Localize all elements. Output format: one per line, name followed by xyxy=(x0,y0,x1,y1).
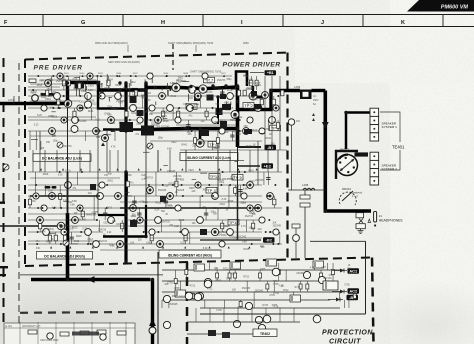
wire leg U xyxy=(135,90,137,96)
wire leg xyxy=(300,281,302,292)
wire tie xyxy=(157,150,159,172)
svg-text:10K: 10K xyxy=(149,114,154,116)
wire stub xyxy=(136,222,140,224)
junction dot xyxy=(169,195,171,197)
relay contact arc xyxy=(339,192,356,205)
transistor Q611 xyxy=(231,111,239,119)
junction xyxy=(124,235,127,238)
svg-text:R628: R628 xyxy=(163,121,169,123)
wire xyxy=(103,128,146,131)
svg-text:R615: R615 xyxy=(156,203,162,205)
wire xyxy=(73,322,75,344)
resistor L2 xyxy=(39,223,42,229)
wire xyxy=(55,322,57,344)
junction dot xyxy=(37,231,39,233)
transistor Q642 xyxy=(61,229,67,235)
junction dot xyxy=(182,195,184,197)
transistor Q661 xyxy=(93,128,100,135)
wire L-ch input bus xyxy=(0,102,64,106)
svg-text:9580: 9580 xyxy=(163,73,169,75)
power unit top rail xyxy=(4,327,135,329)
transistor Q650 xyxy=(212,117,219,124)
junction dot xyxy=(148,184,150,186)
wire leg xyxy=(343,300,345,308)
junction xyxy=(124,260,127,263)
wire xyxy=(180,88,199,89)
capacitor U35 xyxy=(220,92,224,94)
wire leg xyxy=(161,300,163,308)
driver block heavy xyxy=(141,126,154,136)
junction dot xyxy=(37,207,39,209)
junction dot xyxy=(60,207,62,209)
svg-text:2SA733: 2SA733 xyxy=(217,79,226,82)
test marker xyxy=(118,75,120,77)
svg-text:POWER DRIVER: POWER DRIVER xyxy=(223,62,281,69)
wire stub xyxy=(226,102,228,111)
svg-text:D705: D705 xyxy=(260,269,266,271)
transistor Q656 xyxy=(202,73,208,79)
svg-text:AC2: AC2 xyxy=(349,288,358,293)
svg-text:C705: C705 xyxy=(216,310,222,312)
svg-text:R615: R615 xyxy=(37,85,43,87)
svg-text:C705: C705 xyxy=(344,285,350,287)
wire leg L xyxy=(263,172,265,185)
svg-text:33K: 33K xyxy=(244,126,249,128)
svg-text:2SC945: 2SC945 xyxy=(255,290,264,292)
transistor Q777 xyxy=(163,295,170,302)
svg-text:10K: 10K xyxy=(188,134,193,136)
wire leg U xyxy=(199,96,201,108)
continuation tick xyxy=(45,186,51,189)
svg-text:10K: 10K xyxy=(272,222,277,224)
inner sheet dashed line xyxy=(18,63,20,330)
wire xyxy=(340,299,343,301)
transistor Q658 xyxy=(32,95,39,102)
svg-text:R641: R641 xyxy=(266,138,272,140)
svg-text:IDLING CURRENT ADJ (R/ch): IDLING CURRENT ADJ (R/ch) xyxy=(168,253,212,257)
wire stub xyxy=(234,116,242,118)
wire leg L xyxy=(246,220,248,232)
svg-text:+B2: +B2 xyxy=(264,163,272,168)
resistor xyxy=(299,284,302,289)
wire leg L xyxy=(252,220,254,232)
wire tie xyxy=(257,141,259,185)
svg-text:TE402: TE402 xyxy=(260,332,270,336)
power transistor block xyxy=(220,94,226,99)
wire xyxy=(279,76,281,150)
IDLING CURRENT ADJ (R/ch) label xyxy=(159,250,221,258)
wire leg U xyxy=(68,76,70,90)
wire to -B1 badge xyxy=(238,146,261,148)
resistor L29 xyxy=(184,235,187,241)
resistor U38 xyxy=(237,90,240,96)
wire leg U xyxy=(206,108,208,120)
wire relay coil feed xyxy=(345,113,348,150)
dark component row xyxy=(72,332,99,336)
tick xyxy=(127,45,129,52)
svg-text:R733: R733 xyxy=(262,305,268,307)
power unit border xyxy=(4,323,135,344)
svg-text:0.22: 0.22 xyxy=(107,232,112,234)
wire xyxy=(98,90,126,109)
wire xyxy=(217,97,219,124)
junction dot xyxy=(166,75,168,77)
svg-text:0.22: 0.22 xyxy=(180,242,185,244)
svg-text:+B1: +B1 xyxy=(267,71,274,75)
wire tie xyxy=(67,108,69,213)
amplifier block dashed border top xyxy=(25,53,290,60)
supply badge -B2 xyxy=(263,237,275,242)
wire leg L xyxy=(99,220,101,232)
svg-text:4.7K: 4.7K xyxy=(248,79,253,81)
wire rail L xyxy=(28,195,262,197)
junction dot xyxy=(71,219,73,221)
svg-text:D705: D705 xyxy=(272,305,278,307)
ground symbol xyxy=(358,229,364,234)
wire leg L xyxy=(234,185,236,196)
junction xyxy=(198,127,201,130)
wire rail U xyxy=(150,140,262,142)
wire stub xyxy=(108,98,110,102)
grid header divider xyxy=(442,15,444,27)
wire rail partial xyxy=(28,86,60,88)
svg-text:R628: R628 xyxy=(115,85,121,87)
svg-text:9650: 9650 xyxy=(243,41,249,45)
svg-text:8.2K: 8.2K xyxy=(88,90,93,92)
wire rail U xyxy=(28,75,232,77)
wire leg xyxy=(292,292,294,300)
wire leg xyxy=(253,292,255,308)
junction xyxy=(124,170,127,173)
svg-text:150p: 150p xyxy=(107,173,113,175)
amplifier block dashed border bottom xyxy=(25,258,372,267)
svg-text:0.22: 0.22 xyxy=(95,119,100,121)
svg-text:J: J xyxy=(321,20,324,26)
test point TP3 xyxy=(206,188,217,194)
junction dot xyxy=(169,89,171,91)
resistor L38 xyxy=(234,188,237,194)
svg-text:D601: D601 xyxy=(256,85,262,87)
wire rail partial xyxy=(30,100,80,102)
resistor xyxy=(234,273,237,278)
junction xyxy=(184,127,187,130)
svg-text:8.2K: 8.2K xyxy=(207,82,212,84)
relay pin xyxy=(340,168,342,170)
continuation tick xyxy=(49,93,55,96)
wire stub xyxy=(187,94,189,102)
junction dot xyxy=(191,107,193,109)
resistor U45 xyxy=(276,123,279,129)
svg-text:2SA733: 2SA733 xyxy=(63,145,72,148)
wire xyxy=(332,291,340,293)
wire rail L xyxy=(28,207,282,209)
speaker terminal SP2-4 xyxy=(370,177,379,185)
svg-text:D705: D705 xyxy=(174,288,180,290)
junction dot xyxy=(82,107,84,109)
driver block xyxy=(90,184,96,190)
svg-text:2SA733: 2SA733 xyxy=(56,80,65,83)
pre/power driver dashed divider xyxy=(172,44,174,70)
transistor Q605 xyxy=(199,85,207,93)
main sheet border left xyxy=(157,252,159,344)
junction dot xyxy=(243,184,245,186)
capacitor L33 xyxy=(204,213,208,215)
wire leg U xyxy=(147,108,149,120)
terminal mark xyxy=(373,136,375,138)
wire xyxy=(207,87,238,89)
wire leg xyxy=(314,263,316,270)
transistor Q686 xyxy=(85,93,92,100)
svg-text:0.22: 0.22 xyxy=(34,124,39,126)
wire tie xyxy=(237,147,239,185)
svg-text:1K: 1K xyxy=(165,214,168,216)
wire stub xyxy=(231,89,238,91)
junction dot xyxy=(79,95,81,97)
junction dot xyxy=(191,130,193,132)
resistor xyxy=(185,270,188,275)
grid header top rule xyxy=(0,14,474,16)
junction dot xyxy=(80,231,82,233)
signal flow arrow left xyxy=(87,276,95,283)
transistor Q615 xyxy=(102,135,109,142)
wire leg U xyxy=(107,76,109,90)
svg-text:TP 3: TP 3 xyxy=(207,188,216,193)
amplifier block dashed border right xyxy=(286,53,288,263)
wire rail vertical xyxy=(124,83,127,131)
wire rail partial xyxy=(28,240,100,242)
transistor Q686 xyxy=(195,93,201,99)
power unit dashed border top xyxy=(20,311,126,314)
junction dot xyxy=(86,107,88,109)
wire xyxy=(252,86,254,92)
diode xyxy=(336,298,340,302)
svg-text:(speakers): (speakers) xyxy=(350,191,362,195)
wire stub xyxy=(101,83,103,88)
wire leg L xyxy=(180,220,182,232)
transistor Q455 xyxy=(293,235,300,242)
wire stub xyxy=(31,139,38,141)
svg-text:9650 GND ADJ 9650(GRAY): 9650 GND ADJ 9650(GRAY) xyxy=(95,41,128,45)
resistor L41 xyxy=(252,223,255,229)
transistor Q802 xyxy=(100,334,106,340)
wire leg U xyxy=(91,108,93,120)
svg-text:R628: R628 xyxy=(213,148,219,150)
wire stub xyxy=(192,178,196,180)
wire leg U xyxy=(101,90,103,96)
wire leg U xyxy=(238,90,240,96)
test marker xyxy=(199,168,201,170)
transistor Q621 xyxy=(259,128,265,134)
junction dot xyxy=(269,231,271,233)
test marker xyxy=(81,75,83,77)
svg-text:9684: 9684 xyxy=(116,73,122,75)
svg-text:D601: D601 xyxy=(45,99,51,101)
transistor Q668 xyxy=(273,105,279,111)
wire tie xyxy=(44,150,46,172)
svg-text:150p: 150p xyxy=(221,235,227,237)
svg-text:L601: L601 xyxy=(8,98,14,102)
junction xyxy=(144,81,147,84)
svg-text:R615: R615 xyxy=(179,220,185,222)
driver block xyxy=(207,95,214,101)
wire tie xyxy=(32,150,34,172)
svg-text:4.7K: 4.7K xyxy=(241,226,246,228)
DC BALANCE ADJ (L/ch) label xyxy=(33,154,91,162)
wire leg xyxy=(175,270,177,292)
svg-text:R641: R641 xyxy=(48,229,54,231)
svg-text:33K: 33K xyxy=(233,237,238,239)
wire stub xyxy=(163,117,167,119)
wire stub xyxy=(108,96,111,98)
svg-text:150p: 150p xyxy=(249,228,255,230)
wire stub xyxy=(119,90,121,96)
svg-text:100/16V: 100/16V xyxy=(323,277,332,280)
svg-text:1K: 1K xyxy=(269,134,272,136)
test marker xyxy=(150,75,152,77)
wire leg L xyxy=(45,185,47,196)
svg-text:C624: C624 xyxy=(41,97,47,99)
wire rail U xyxy=(126,107,230,109)
wire stub xyxy=(166,83,168,88)
wire tie xyxy=(79,150,81,172)
svg-text:33K: 33K xyxy=(46,142,51,144)
wire xyxy=(199,129,202,140)
wire stub xyxy=(194,90,196,99)
wire leg U xyxy=(162,108,164,120)
wire R-ch return bus xyxy=(31,278,151,282)
wire rail L xyxy=(28,243,282,245)
wire stub xyxy=(49,232,55,234)
transistor Q648 xyxy=(41,105,47,111)
svg-text:6.8K: 6.8K xyxy=(242,241,247,243)
wire stub xyxy=(167,90,169,95)
wire leg xyxy=(240,300,242,308)
wire leg xyxy=(192,292,194,300)
svg-text:4.7K: 4.7K xyxy=(111,147,116,149)
wire stub xyxy=(143,151,150,153)
wire tie xyxy=(97,108,99,215)
svg-text:33K: 33K xyxy=(36,248,41,250)
junction dot xyxy=(143,231,145,233)
resistor U42 xyxy=(260,99,263,105)
resistor L22 xyxy=(150,235,153,241)
svg-text:IDLING CURRENT ADJ (L/ch): IDLING CURRENT ADJ (L/ch) xyxy=(187,156,231,160)
svg-text:R641: R641 xyxy=(171,96,177,98)
svg-text:2SC945: 2SC945 xyxy=(158,190,167,192)
svg-text:150p: 150p xyxy=(210,212,216,214)
wire tie xyxy=(169,150,171,172)
svg-text:10K: 10K xyxy=(237,134,242,136)
wire rail U xyxy=(146,130,260,132)
wire leg L xyxy=(151,232,153,244)
wire stub xyxy=(145,193,151,195)
wire leg U xyxy=(267,120,269,131)
transistor Q779 xyxy=(263,315,271,323)
svg-text:1K: 1K xyxy=(348,265,351,267)
svg-text:150p: 150p xyxy=(223,226,229,228)
junction dot xyxy=(52,75,54,77)
wire xyxy=(13,96,15,105)
junction dot xyxy=(229,184,231,186)
transistor Q638 xyxy=(130,105,137,112)
resistor U32 xyxy=(205,111,208,117)
svg-text:C612: C612 xyxy=(219,204,225,206)
wire tie xyxy=(185,150,187,172)
test marker xyxy=(100,75,102,77)
transistor Q606 xyxy=(167,193,174,200)
wire stub xyxy=(106,74,108,83)
wire leg U xyxy=(281,90,283,96)
trimmer VR xyxy=(3,164,9,170)
junction dot xyxy=(277,243,279,245)
svg-text:4.7K: 4.7K xyxy=(279,286,284,288)
junction dot xyxy=(239,130,241,132)
wire leg xyxy=(265,308,267,322)
svg-text:R628: R628 xyxy=(105,88,111,90)
wire leg L xyxy=(161,220,163,232)
svg-text:8.2K: 8.2K xyxy=(222,199,227,201)
svg-text:G: G xyxy=(81,20,85,26)
junction xyxy=(66,278,69,281)
wire leg xyxy=(320,270,322,281)
capacitor stripe xyxy=(291,296,293,301)
transistor Q608 xyxy=(247,205,253,211)
wire stub xyxy=(96,136,100,138)
svg-text:R641: R641 xyxy=(203,189,209,191)
wire xyxy=(120,207,260,209)
transistor Q784 xyxy=(204,280,212,288)
junction xyxy=(153,86,156,89)
wire rail U xyxy=(28,95,262,97)
wire leg L xyxy=(121,220,123,232)
transistor Q801 xyxy=(47,333,53,339)
resistor xyxy=(332,270,335,275)
junction dot xyxy=(59,107,61,109)
svg-text:CIRCUIT: CIRCUIT xyxy=(329,339,361,344)
transistor Q779 xyxy=(313,315,321,323)
svg-text:10K: 10K xyxy=(213,213,218,215)
wire leg xyxy=(348,300,350,308)
junction dot xyxy=(63,95,65,97)
resistor R97 xyxy=(97,330,106,334)
junction dot xyxy=(124,243,126,245)
resistor U14 xyxy=(107,80,110,86)
wire leg xyxy=(332,263,334,281)
wire stub xyxy=(74,76,80,78)
svg-text:33K: 33K xyxy=(128,175,133,177)
junction dot xyxy=(124,119,126,121)
junction dot xyxy=(212,107,214,109)
test point TP7 xyxy=(204,77,215,83)
test marker xyxy=(223,75,225,77)
resistor xyxy=(239,302,242,307)
capacitor U37 xyxy=(230,135,234,137)
junction xyxy=(124,213,127,216)
junction xyxy=(124,81,127,84)
svg-text:C624: C624 xyxy=(188,170,194,172)
resistor U8 xyxy=(73,111,76,117)
transistor Q728 xyxy=(204,278,211,285)
junction dot xyxy=(36,243,38,245)
transistor Q655 xyxy=(262,92,269,99)
junction dot xyxy=(112,107,114,109)
speaker terminal SP1-2 xyxy=(370,116,379,124)
test marker xyxy=(165,75,167,77)
svg-text:H: H xyxy=(161,20,165,26)
wire leg U xyxy=(51,76,53,96)
transistor Q600 xyxy=(37,217,44,224)
junction xyxy=(144,235,147,238)
